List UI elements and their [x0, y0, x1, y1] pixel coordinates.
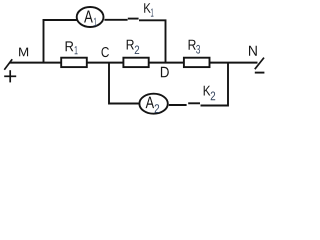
resistor R1 [61, 58, 87, 67]
switch K1 subscript 1 [151, 8, 154, 16]
resistor R2 letter R [127, 40, 134, 50]
switch K2 subscript 2 [211, 91, 215, 100]
polarity minus at N [255, 72, 265, 74]
resistor R1 subscript 1 [75, 46, 78, 54]
switch K1 blade [128, 18, 139, 20]
terminal M slash [4, 59, 12, 69]
wire K1 to node D (corner and drop) [139, 20, 166, 62]
switch K2 blade [188, 102, 200, 104]
ammeter A1 subscript 1 [94, 18, 97, 26]
switch K1 letter K [144, 3, 151, 13]
wire A1 to switch K1 [104, 19, 127, 21]
resistor R2 [123, 58, 148, 67]
node D label [161, 67, 169, 77]
resistor R3 [184, 58, 210, 67]
wire left vertical riser [43, 19, 45, 62]
ammeter A2 subscript 2 [155, 104, 160, 113]
node N label [249, 46, 257, 56]
resistor R2 subscript 2 [135, 46, 139, 54]
resistor R3 letter R [189, 40, 196, 50]
ammeter A2 letter A [146, 97, 154, 109]
wire node C drop to bottom branch [109, 63, 139, 104]
ammeter A2 ellipse [139, 94, 167, 114]
wire K2 to main bus (corner and riser) [201, 63, 229, 106]
ammeter A1 ellipse [77, 7, 104, 27]
node C label [102, 47, 109, 57]
wire A2 to switch K2 [169, 104, 187, 106]
polarity plus at M [4, 70, 16, 82]
resistor R1 letter R [66, 41, 74, 51]
wire main bus M to N [10, 62, 258, 64]
switch K2 letter K [204, 86, 211, 96]
terminal N slash [255, 58, 264, 70]
node M label [19, 48, 28, 57]
resistor R3 subscript 3 [196, 45, 200, 54]
wire top branch to ammeter A1 [43, 19, 77, 21]
ammeter A1 letter A [84, 10, 93, 22]
